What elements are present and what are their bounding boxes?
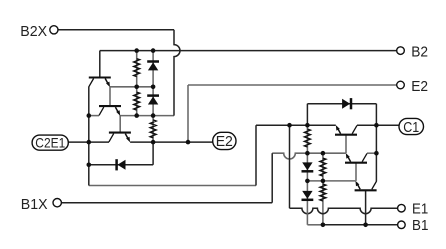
node C2E1: [32, 135, 68, 150]
junction D1 top: [151, 48, 156, 53]
wire E2 emitter line: [130, 141, 213, 143]
svg-text:E2: E2: [411, 78, 428, 95]
diode D4: [342, 98, 351, 109]
resistor R1: [134, 59, 140, 77]
resistor R4: [304, 129, 310, 147]
wire transistor Q5 base lead: [355, 163, 357, 181]
wire transistor Q3 base lead: [119, 116, 121, 133]
wire B1 base rail: [323, 224, 398, 226]
wire transistor Q2 base lead: [109, 87, 111, 106]
svg-text:E2: E2: [216, 134, 233, 150]
resistor R2: [134, 92, 140, 110]
diode D5: [302, 162, 314, 171]
wire E1 riser: [289, 125, 291, 208]
diode D2: [147, 96, 159, 105]
node E2: [213, 132, 236, 150]
junction E2 line R3: [151, 140, 156, 145]
resistor R6: [320, 184, 326, 201]
wire B1X riser: [271, 153, 273, 203]
wire resistor column leads right: [322, 153, 324, 225]
junction D3 cathode: [87, 163, 92, 168]
wire collector rail left: [88, 87, 90, 143]
diode D3: [117, 159, 126, 170]
wire resistor column leads left: [136, 51, 138, 116]
svg-text:C1: C1: [403, 120, 419, 136]
svg-text:B2: B2: [411, 44, 428, 61]
svg-text:B2X: B2X: [20, 23, 47, 40]
label B1: [412, 217, 428, 234]
wire node1 (T1 emitter to diode column): [110, 86, 153, 88]
wire diode column leads left: [152, 51, 154, 143]
transistor Q6: [355, 181, 377, 191]
junction R1 top: [134, 48, 139, 53]
junction D4 anode: [305, 123, 310, 128]
junction node2-prime D: [305, 151, 310, 156]
junction rail-Q2 collector: [87, 113, 92, 118]
junction node1 R: [134, 85, 139, 90]
wire D3 branch riser: [152, 142, 154, 165]
terminal B2X: [50, 26, 58, 34]
wire diode column leads right: [306, 125, 308, 181]
wire crossover vertical: [255, 125, 257, 185]
wire transistor Q4 base lead: [345, 135, 347, 154]
terminal B2: [397, 47, 405, 55]
wire node2 (T2 emitter to B2X riser): [119, 115, 174, 117]
terminal B1X: [53, 199, 61, 207]
wire node1-prime (right): [307, 180, 355, 182]
transistor Q5: [345, 153, 367, 163]
junction B1 rail Q6 base: [363, 223, 368, 228]
diode D1: [147, 62, 159, 71]
wire C2E1 collector line: [68, 141, 109, 143]
junction node2 R: [134, 113, 139, 118]
junction B1 rail R6: [321, 223, 326, 228]
wire B2 base rail: [100, 50, 397, 52]
wire collector rail right: [375, 104, 377, 181]
wire Q2 collector stub: [89, 115, 99, 117]
junction C1 rail: [374, 123, 379, 128]
svg-text:E1: E1: [412, 201, 428, 218]
svg-text:B1: B1: [412, 217, 428, 234]
junction node1-prime R: [321, 179, 326, 184]
wire B2X lead: [58, 29, 174, 31]
junction node1 D: [151, 85, 156, 90]
wire D3 line: [89, 164, 153, 166]
terminal E1: [398, 204, 406, 212]
wire D6 drop to B1 rail: [306, 181, 308, 225]
transistor Q1: [89, 78, 111, 88]
wire element-1 emitter line right part: [357, 124, 376, 126]
terminal E2: [397, 81, 405, 89]
wire D4 anode riser: [306, 104, 308, 126]
label B2X: [20, 23, 47, 40]
junction E2 line riser: [186, 140, 191, 145]
wire B1 base rail left part: [307, 224, 323, 226]
wire D4 line: [307, 103, 376, 105]
label E2: [411, 78, 428, 95]
svg-text:B1X: B1X: [21, 196, 48, 213]
junction rail-Q5 collector: [374, 151, 379, 156]
wire transistor Q6 base lead: [365, 190, 367, 225]
junction node1-prime D: [305, 179, 310, 184]
label E1: [412, 201, 428, 218]
transistor Q2: [99, 106, 121, 116]
wire C2E1 to element-1 crossover horizontal: [89, 185, 256, 187]
wire E2 riser: [187, 85, 189, 142]
wire C1 line: [376, 124, 399, 126]
junction E1 riser top: [287, 123, 292, 128]
node C1: [399, 118, 424, 135]
wire element-1 emitter line: [256, 124, 336, 126]
svg-text:C2E1: C2E1: [35, 135, 65, 150]
wire E1 line with hops: [290, 208, 398, 214]
diode D6: [302, 191, 314, 200]
transistor Q3: [109, 133, 131, 143]
terminal B1: [398, 221, 406, 229]
label B2: [411, 44, 428, 61]
wire transistor Q1 base lead: [99, 51, 101, 78]
resistor R5: [320, 158, 326, 176]
junction node2 D: [151, 113, 156, 118]
transistor Q4: [335, 125, 357, 135]
junction C2E1 rail: [87, 140, 92, 145]
wire E2 terminal line: [188, 84, 397, 86]
label B1X: [21, 196, 48, 213]
wire B1X lead: [62, 202, 273, 204]
wire C2E1 drop: [88, 142, 90, 185]
wire node2-prime (right): [272, 153, 346, 159]
junction node2-prime R: [321, 151, 326, 156]
wire B2X riser with hop around B2 rail: [174, 30, 180, 116]
resistor R3: [150, 120, 156, 138]
wire Q5 collector stub: [367, 152, 376, 154]
